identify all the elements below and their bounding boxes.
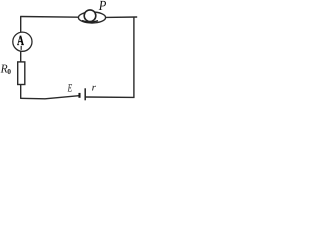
svg-text:E: E bbox=[67, 83, 72, 95]
svg-text:r: r bbox=[92, 82, 97, 93]
svg-text:0: 0 bbox=[7, 67, 11, 76]
svg-text:P: P bbox=[98, 0, 107, 14]
svg-text:A: A bbox=[17, 34, 25, 49]
